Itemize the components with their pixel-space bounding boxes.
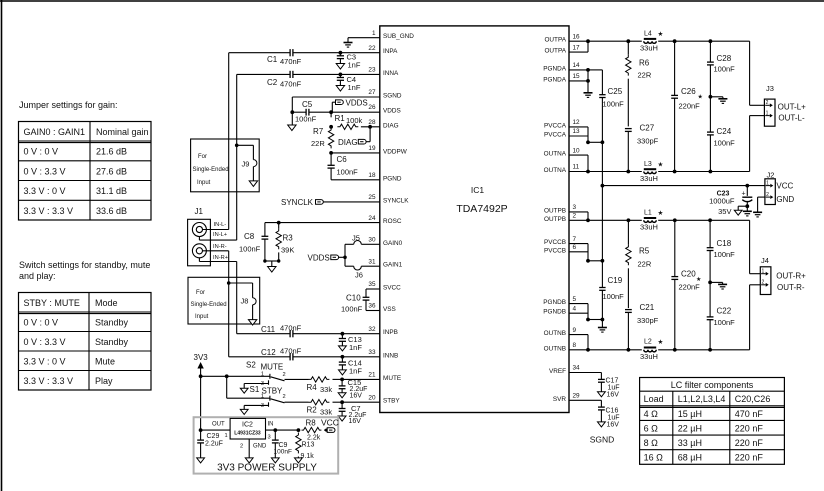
svg-text:17: 17 xyxy=(573,44,581,51)
node R5 top xyxy=(627,218,631,222)
svg-text:20: 20 xyxy=(368,394,376,401)
svg-text:GAIN1: GAIN1 xyxy=(383,262,403,269)
svg-text:0 V : 3.3 V: 0 V : 3.3 V xyxy=(24,166,66,176)
capacitor C19 100nF xyxy=(599,261,624,320)
wire PVCCA pins 12/13 staple xyxy=(569,127,588,142)
wire OUTNA pins 10/11 staple xyxy=(569,155,588,171)
svg-text:R8: R8 xyxy=(306,418,317,427)
svg-text:INPA: INPA xyxy=(383,48,398,55)
svg-text:MUTE: MUTE xyxy=(383,375,401,382)
svg-text:PVCCA: PVCCA xyxy=(544,122,567,129)
svg-text:16V: 16V xyxy=(607,421,620,428)
svg-text:33uH: 33uH xyxy=(640,223,658,232)
svg-text:220nF: 220nF xyxy=(679,283,701,292)
svg-text:21: 21 xyxy=(368,372,376,379)
wire VDDS pin 26 xyxy=(331,111,380,113)
node VDDS jumper xyxy=(343,255,347,259)
resistor R4 33k xyxy=(307,377,343,394)
wire R2 to STBY pin 20 xyxy=(342,401,380,403)
svg-text:470nF: 470nF xyxy=(280,324,302,333)
svg-text:33: 33 xyxy=(368,349,376,356)
wire S1 contact 3 to ground xyxy=(244,405,268,409)
svg-text:★: ★ xyxy=(658,30,664,38)
wire R8 to VCC flag xyxy=(324,429,327,431)
svg-text:R13: R13 xyxy=(302,442,315,449)
wire PVCCB pins 7/6 staple xyxy=(569,244,588,261)
svg-text:SYNCLK: SYNCLK xyxy=(383,197,409,204)
node R1/R7 xyxy=(329,125,333,129)
svg-text:6: 6 xyxy=(573,244,577,251)
svg-text:IC2: IC2 xyxy=(242,422,253,429)
svg-text:Play: Play xyxy=(95,376,113,386)
svg-text:100nF: 100nF xyxy=(714,65,736,74)
svg-text:C28: C28 xyxy=(717,54,732,63)
label IN-L- xyxy=(214,222,227,228)
svg-text:MUTE: MUTE xyxy=(261,363,284,372)
net flag VDDS (gain jumpers) xyxy=(308,254,346,263)
connector J4 OUT-R xyxy=(760,256,771,295)
svg-text:0 V : 0 V: 0 V : 0 V xyxy=(24,318,59,328)
svg-text:J1: J1 xyxy=(195,207,204,216)
wire C6 to PGND pin 18 xyxy=(331,179,380,181)
svg-text:OUT-L+: OUT-L+ xyxy=(778,103,807,112)
node J8 tap xyxy=(227,281,231,285)
svg-text:OUT-R-: OUT-R- xyxy=(777,283,805,292)
wire J1 tip R (IN-R+) xyxy=(203,250,229,252)
svg-text:★: ★ xyxy=(658,209,664,217)
pin 5 PGNDB label xyxy=(543,296,576,306)
svg-text:33k: 33k xyxy=(320,408,332,417)
svg-text:OUTPA: OUTPA xyxy=(544,48,566,55)
svg-text:★: ★ xyxy=(658,160,664,168)
table: switch settings for standby mute and play xyxy=(19,260,152,390)
svg-text:4: 4 xyxy=(573,305,577,312)
svg-text:33 µH: 33 µH xyxy=(678,438,702,448)
svg-text:Standby: Standby xyxy=(95,337,129,347)
svg-text:12: 12 xyxy=(573,119,581,126)
wire VDDS to R7 node xyxy=(330,112,332,117)
jumper box J8: for single-ended input xyxy=(188,277,260,324)
svg-text:220 nF: 220 nF xyxy=(735,438,764,448)
svg-text:470 nF: 470 nF xyxy=(735,409,764,419)
svg-text:33uH: 33uH xyxy=(640,44,658,53)
capacitor C10 100nF xyxy=(341,294,369,314)
svg-text:14: 14 xyxy=(573,62,581,69)
node INNB/C14 xyxy=(341,355,345,359)
pin 10 OUTNA label xyxy=(544,147,580,157)
resistor R1 100k xyxy=(335,114,363,130)
svg-text:27: 27 xyxy=(368,89,376,96)
label VCC xyxy=(776,181,793,190)
svg-text:100k: 100k xyxy=(346,116,363,125)
svg-text:SVCC: SVCC xyxy=(383,285,401,292)
svg-text:PVCCB: PVCCB xyxy=(544,239,566,246)
capacitor C21 330pF xyxy=(625,303,659,350)
svg-text:R1: R1 xyxy=(335,114,346,123)
wire OUTNB pins 9/8 staple xyxy=(569,335,588,350)
svg-text:C17: C17 xyxy=(606,377,619,384)
wire VSS pin 36 xyxy=(366,310,380,312)
svg-text:PGNDB: PGNDB xyxy=(543,309,566,316)
svg-text:13: 13 xyxy=(573,128,581,135)
svg-text:29: 29 xyxy=(573,393,581,400)
pin 4 PGNDB label xyxy=(543,305,576,315)
svg-text:LC filter components: LC filter components xyxy=(671,380,754,390)
ground (C23 power) xyxy=(743,206,752,216)
svg-text:GND: GND xyxy=(253,444,267,450)
svg-text:9: 9 xyxy=(573,327,577,334)
pin 13 PVCCA label xyxy=(544,128,580,138)
svg-text:3.3 V : 3.3 V: 3.3 V : 3.3 V xyxy=(24,376,74,386)
wire VCC rail xyxy=(602,185,765,187)
svg-text:J6: J6 xyxy=(355,271,363,280)
label OUT-R- xyxy=(777,283,805,292)
label S1 STBY xyxy=(250,385,284,395)
svg-text:1000uF: 1000uF xyxy=(709,196,735,205)
svg-text:22R: 22R xyxy=(311,139,325,148)
wire SVCC pin 35 xyxy=(366,289,380,297)
svg-text:C29: C29 xyxy=(207,433,220,440)
wire INPB pin 32 xyxy=(293,333,380,335)
node C20 top xyxy=(673,218,677,222)
svg-text:INPB: INPB xyxy=(383,329,398,336)
svg-text:Standby: Standby xyxy=(95,318,129,328)
pin 11 OUTNA label xyxy=(544,164,580,174)
svg-text:STBY: STBY xyxy=(262,386,284,395)
svg-text:18: 18 xyxy=(368,172,376,179)
ground (J9) xyxy=(249,181,257,187)
svg-text:★: ★ xyxy=(698,94,703,101)
pin 1 SUB_GND label xyxy=(372,30,414,40)
pin 18 PGND label xyxy=(368,172,401,182)
svg-text:J2: J2 xyxy=(767,170,775,179)
svg-text:100nF: 100nF xyxy=(341,305,363,314)
svg-text:1: 1 xyxy=(261,393,264,399)
svg-text:22R: 22R xyxy=(638,71,652,80)
pin 33 INNB label xyxy=(368,349,398,359)
svg-text:For: For xyxy=(196,290,205,296)
svg-text:OUTNA: OUTNA xyxy=(544,167,567,174)
pin 30 GAIN0 label xyxy=(368,237,402,247)
node C26 bottom xyxy=(673,170,677,174)
pin 32 INPB label xyxy=(368,326,398,336)
svg-text:For: For xyxy=(198,154,207,160)
svg-text:C20,C26: C20,C26 xyxy=(735,394,771,404)
svg-text:2: 2 xyxy=(573,213,577,220)
wire J1 sleeve L (IN-L-) xyxy=(199,237,236,241)
svg-text:5: 5 xyxy=(573,296,577,303)
svg-text:VDDS: VDDS xyxy=(308,254,330,263)
capacitor C18 100nF xyxy=(707,220,735,282)
wire OUTNB to J4 pin 2 xyxy=(750,285,761,350)
svg-text:7: 7 xyxy=(573,236,577,243)
svg-text:C26: C26 xyxy=(681,87,696,96)
ground (C18/C22 mid) xyxy=(710,282,727,289)
svg-text:3: 3 xyxy=(573,204,577,211)
pin 7 PVCCB label xyxy=(544,236,577,246)
capacitor C9 100nF xyxy=(272,430,292,458)
svg-text:23: 23 xyxy=(368,67,376,74)
svg-text:OUTNB: OUTNB xyxy=(544,345,566,352)
svg-text:1: 1 xyxy=(225,433,228,439)
wire J2 pin2 to ground xyxy=(758,197,765,212)
inductor L3 33uH xyxy=(640,160,664,183)
svg-text:VDDS: VDDS xyxy=(383,108,401,115)
3V3 power supply box xyxy=(194,417,339,473)
svg-text:21.6 dB: 21.6 dB xyxy=(96,147,127,157)
svg-text:C6: C6 xyxy=(337,155,348,164)
svg-text:3.3 V : 3.3 V: 3.3 V : 3.3 V xyxy=(24,206,74,216)
node PVCCB/C19 xyxy=(601,259,605,263)
svg-text:3.3 V : 0 V: 3.3 V : 0 V xyxy=(24,357,66,367)
node STBY/C7 xyxy=(340,400,344,404)
node INPB/C13 xyxy=(341,332,345,336)
svg-text:SVR: SVR xyxy=(553,396,567,403)
wire S2 contact 3 to ground xyxy=(244,384,268,389)
capacitor C8 100nF xyxy=(239,232,268,261)
connector J2 VCC/GND xyxy=(765,170,775,204)
svg-text:C5: C5 xyxy=(302,100,313,109)
node C8 bottom xyxy=(263,259,266,262)
pin 2 OUTPB label xyxy=(544,213,577,223)
svg-text:IN-L-: IN-L- xyxy=(214,222,227,228)
svg-text:GAIN0 : GAIN1: GAIN0 : GAIN1 xyxy=(24,127,86,137)
svg-text:PVCCB: PVCCB xyxy=(544,247,566,254)
svg-text:J5: J5 xyxy=(352,234,360,243)
svg-text:ROSC: ROSC xyxy=(383,218,402,225)
ground (C8/R3) xyxy=(268,267,276,273)
capacitor C14 1nF xyxy=(339,357,363,376)
node C22 bottom xyxy=(708,348,712,352)
op-amp U1: IC1 TDA7492P body xyxy=(380,26,569,413)
svg-text:330pF: 330pF xyxy=(637,137,659,146)
capacitor C6 100nF xyxy=(328,153,359,180)
svg-text:OUT: OUT xyxy=(212,421,225,427)
node C23 gnd xyxy=(745,204,749,208)
node OUTPA xyxy=(586,39,590,43)
node INNA/C4 xyxy=(339,73,343,77)
pin 34 VREF label xyxy=(549,365,580,375)
wire PGNDA pins 14/15 staple xyxy=(569,70,588,81)
table: LC filter components xyxy=(640,378,785,465)
node PGNDB xyxy=(586,318,590,322)
svg-text:OUT-R+: OUT-R+ xyxy=(776,272,806,281)
pin 21 MUTE label xyxy=(368,372,401,382)
wire PVCCB to C19 xyxy=(588,260,602,262)
svg-text:J8: J8 xyxy=(241,297,249,306)
node VDDS xyxy=(329,110,333,114)
node OUTPB xyxy=(586,218,590,222)
regulator IC2 L4931CZ33 xyxy=(230,418,265,439)
node VDDPW/C6 xyxy=(329,151,333,155)
svg-text:Input: Input xyxy=(195,314,209,320)
node PGNDA a xyxy=(586,68,590,72)
pin 25 SYNCLK label xyxy=(368,194,409,204)
ground (C3) xyxy=(336,64,344,70)
wire R1 to DIAG pin 28 xyxy=(361,126,380,128)
wire input vertical left (INPA net) xyxy=(228,53,230,230)
svg-text:VDDPW: VDDPW xyxy=(383,148,408,155)
pin 36 VSS label xyxy=(368,303,395,313)
label OUT-L+ xyxy=(778,103,807,112)
wire branch to S1 xyxy=(227,376,270,398)
svg-text:27.6 dB: 27.6 dB xyxy=(96,166,127,176)
svg-text:33.6 dB: 33.6 dB xyxy=(96,206,127,216)
svg-text:35: 35 xyxy=(368,281,376,288)
ground (J8) xyxy=(248,320,256,326)
svg-text:OUTPB: OUTPB xyxy=(544,207,566,214)
svg-text:C11: C11 xyxy=(261,325,276,334)
svg-text:Single-Ended: Single-Ended xyxy=(191,302,227,308)
svg-text:100nF: 100nF xyxy=(714,318,736,327)
svg-text:C12: C12 xyxy=(261,348,276,357)
label IN-R+ xyxy=(213,255,229,261)
svg-text:OUTPB: OUTPB xyxy=(544,216,566,223)
svg-text:10: 10 xyxy=(573,147,581,154)
resistor R3 39K xyxy=(276,223,294,261)
wire OUTPA pins 16/17 staple xyxy=(569,41,588,52)
svg-text:16 Ω: 16 Ω xyxy=(644,453,664,463)
svg-text:33uH: 33uH xyxy=(640,174,658,183)
svg-text:C24: C24 xyxy=(717,127,732,136)
capacitor C7 2.2uF xyxy=(339,402,367,425)
svg-text:220nF: 220nF xyxy=(679,102,701,111)
wire VREF pin 34 xyxy=(569,373,601,380)
node PVCCB xyxy=(586,259,590,263)
node VCC/C23 xyxy=(745,184,749,188)
svg-text:22R: 22R xyxy=(638,260,652,269)
capacitor C2 470nF xyxy=(237,71,302,89)
svg-text:19: 19 xyxy=(368,145,376,152)
capacitor C23 1000uF electrolytic xyxy=(709,186,752,216)
capacitor C16 1uF xyxy=(598,407,620,428)
svg-text:Jumper settings for gain:: Jumper settings for gain: xyxy=(19,100,118,110)
resistor R7 22R xyxy=(311,127,334,148)
svg-text:PVCCA: PVCCA xyxy=(544,132,567,139)
svg-text:INNA: INNA xyxy=(383,70,399,77)
node OUTNA xyxy=(586,170,590,174)
wire R7 to VDDPW pin 19 xyxy=(331,152,380,153)
svg-text:L3: L3 xyxy=(644,161,652,168)
svg-text:IN-L+: IN-L+ xyxy=(213,232,228,238)
node C20 bottom xyxy=(673,348,677,352)
pin 3 OUTPB label xyxy=(544,204,577,214)
node C18 top xyxy=(708,218,712,222)
svg-text:C25: C25 xyxy=(608,87,623,96)
node VCC rail start xyxy=(601,184,605,188)
svg-text:L2: L2 xyxy=(644,338,652,345)
wire IC2 IN xyxy=(266,421,299,440)
switch S1 STBY xyxy=(261,393,286,409)
capacitor C11 470nF xyxy=(237,324,302,338)
svg-text:C8: C8 xyxy=(244,232,255,241)
node MUTE/C15 xyxy=(340,378,344,382)
node PVCCA/C25 xyxy=(601,140,605,144)
wire PVCCA to C25 bottom xyxy=(588,141,602,143)
svg-text:16V: 16V xyxy=(607,391,620,398)
svg-text:330pF: 330pF xyxy=(637,316,659,325)
svg-text:470nF: 470nF xyxy=(280,347,302,356)
capacitor C24 100nF xyxy=(707,97,735,172)
ground (SUB_GND pin 1) xyxy=(344,38,380,47)
wire SYNCLK pin 25 xyxy=(323,201,380,203)
svg-text:R7: R7 xyxy=(313,127,324,136)
capacitor C22 100nF xyxy=(707,282,735,349)
svg-text:Nominal gain: Nominal gain xyxy=(96,127,149,137)
capacitor C4 1nF xyxy=(337,74,361,92)
svg-text:15 µH: 15 µH xyxy=(678,409,702,419)
svg-text:1nF: 1nF xyxy=(349,367,362,376)
node C21 bottom xyxy=(627,348,631,352)
svg-text:L4: L4 xyxy=(644,31,652,38)
connector J3 OUT-L xyxy=(764,84,775,126)
svg-text:100nF: 100nF xyxy=(337,168,359,177)
svg-text:3: 3 xyxy=(268,435,271,441)
svg-text:3.3 V : 0 V: 3.3 V : 0 V xyxy=(24,186,66,196)
svg-text:1nF: 1nF xyxy=(348,61,361,70)
svg-text:35V: 35V xyxy=(718,207,731,216)
wire SGND pin 27 xyxy=(292,97,380,112)
svg-text:S2: S2 xyxy=(246,361,256,370)
pin 35 SVCC label xyxy=(368,281,401,291)
ground (R13) xyxy=(295,458,303,463)
node C18/C22 mid xyxy=(708,281,712,285)
wire PGNDB to C19 bottom xyxy=(588,319,602,321)
svg-text:33k: 33k xyxy=(320,385,332,394)
capacitor C25 100nF xyxy=(599,87,624,142)
svg-text:TDA7492P: TDA7492P xyxy=(456,203,507,215)
svg-text:C10: C10 xyxy=(346,294,361,303)
node PVCCA xyxy=(586,140,590,144)
ground (C4) xyxy=(336,86,344,92)
svg-text:22 µH: 22 µH xyxy=(678,423,702,433)
wire INPA pin 22 xyxy=(293,52,380,54)
ground (C29) xyxy=(197,458,205,463)
svg-text:C2: C2 xyxy=(267,78,278,87)
svg-text:100nF: 100nF xyxy=(295,115,317,124)
capacitor C15 2.2uF xyxy=(339,378,368,399)
node DIAG/R1 xyxy=(368,125,372,129)
wire J1 sleeve R (IN-R-) xyxy=(199,258,236,262)
net flag SYNCLK xyxy=(281,198,323,207)
ground (SGND net) xyxy=(288,112,296,130)
node VCC flag xyxy=(325,429,328,432)
wire C8/R3 bottom xyxy=(265,261,279,267)
svg-text:26: 26 xyxy=(368,104,376,111)
svg-text:STBY: STBY xyxy=(383,398,400,405)
svg-text:100nF: 100nF xyxy=(239,245,261,254)
svg-text:100nF: 100nF xyxy=(603,100,625,109)
svg-text:24: 24 xyxy=(368,215,376,222)
svg-text:34: 34 xyxy=(573,365,581,372)
svg-text:31.1 dB: 31.1 dB xyxy=(96,186,127,196)
inductor L4 33uH xyxy=(640,30,664,53)
svg-text:STBY : MUTE: STBY : MUTE xyxy=(24,298,80,308)
ground (C13) xyxy=(339,346,347,351)
node R6 top xyxy=(626,39,630,43)
svg-text:SYNCLK: SYNCLK xyxy=(281,198,314,207)
svg-text:Single-Ended: Single-Ended xyxy=(193,167,229,173)
wire S1 pole to R2 xyxy=(285,401,309,403)
svg-text:OUTPA: OUTPA xyxy=(544,37,566,44)
jumper J5 (GAIN0) xyxy=(345,234,380,258)
wire R4 to MUTE pin 21 xyxy=(342,378,380,380)
wire IC2 GND xyxy=(240,439,267,458)
svg-text:33uH: 33uH xyxy=(640,352,658,361)
svg-text:J3: J3 xyxy=(766,84,774,93)
ground (C28/C24 mid) xyxy=(710,97,727,104)
wire VCC vertical (PVCCA-PVCCB) xyxy=(601,142,603,260)
